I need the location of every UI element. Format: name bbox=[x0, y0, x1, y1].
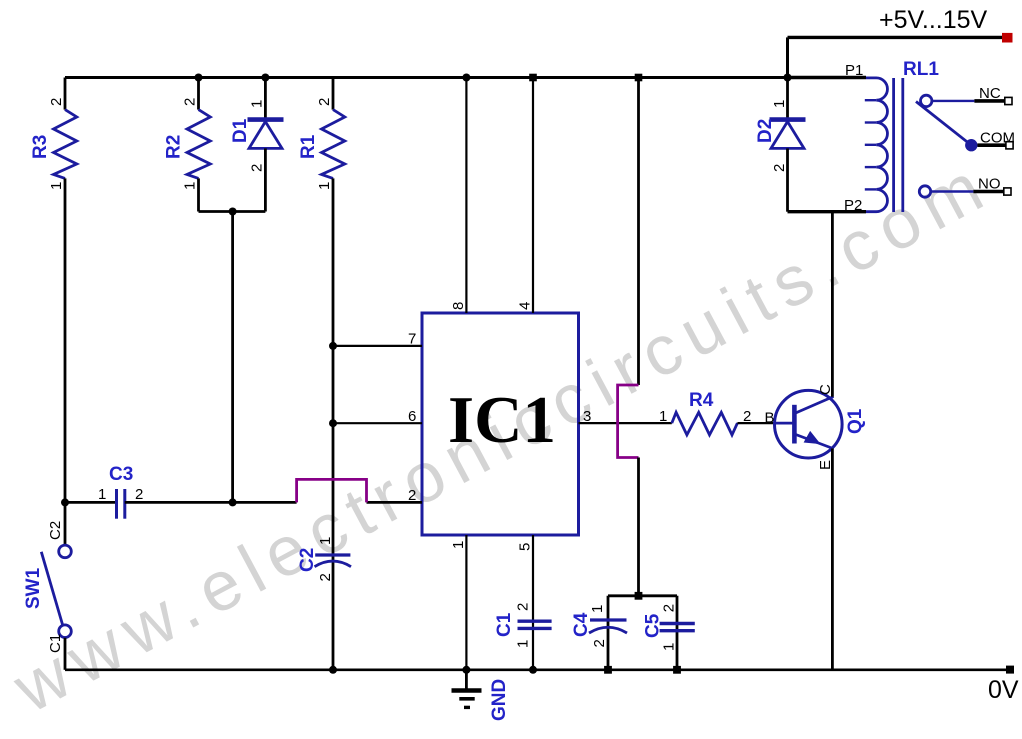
resistor R2 bbox=[164, 78, 211, 212]
svg-text:2: 2 bbox=[661, 604, 678, 612]
node dot rail pin8 bbox=[462, 74, 470, 82]
node dot rail D1 bbox=[261, 74, 269, 82]
svg-text:2: 2 bbox=[48, 98, 65, 106]
resistor R1 bbox=[298, 78, 345, 191]
capacitor C4 bbox=[571, 605, 627, 648]
svg-text:2: 2 bbox=[408, 487, 416, 504]
relay contact NC bbox=[921, 85, 1013, 107]
transistor Q1 bbox=[765, 384, 867, 470]
wire purple hop over C2 line bbox=[297, 479, 367, 502]
svg-text:1: 1 bbox=[317, 537, 334, 545]
svg-text:IC1: IC1 bbox=[448, 383, 556, 457]
diode D2 bbox=[755, 78, 806, 212]
wire top rail bbox=[65, 76, 788, 79]
wire pin 8 bbox=[465, 78, 467, 314]
wire pin 7 bbox=[333, 345, 422, 347]
svg-text:B: B bbox=[765, 410, 775, 427]
svg-text:GND: GND bbox=[489, 679, 510, 721]
node square C5 bottom bbox=[673, 666, 681, 674]
svg-text:NO: NO bbox=[978, 176, 1001, 193]
svg-text:C2: C2 bbox=[297, 548, 318, 572]
wire C4 leg bbox=[607, 596, 610, 670]
wire pin 6 bbox=[333, 422, 422, 424]
node square C4C5 bbox=[635, 592, 643, 600]
svg-text:2: 2 bbox=[591, 639, 608, 647]
wire x638 riser top bbox=[637, 78, 640, 386]
node 0V terminal bbox=[1006, 666, 1014, 674]
wire junction to C3 node bbox=[231, 212, 234, 503]
wire R1 bottom to rail (through C2) bbox=[332, 178, 335, 669]
svg-text:C2: C2 bbox=[47, 521, 64, 540]
svg-text:1: 1 bbox=[589, 605, 606, 613]
wire pin 5 bbox=[532, 535, 534, 670]
svg-text:R2: R2 bbox=[164, 135, 185, 159]
wire pin 2 stub bbox=[367, 501, 423, 504]
svg-text:4: 4 bbox=[517, 302, 534, 310]
wire pin 1 bbox=[465, 535, 467, 670]
svg-text:2: 2 bbox=[515, 603, 532, 611]
svg-text:R3: R3 bbox=[30, 135, 51, 159]
relay contact NO bbox=[919, 176, 1011, 198]
svg-text:2: 2 bbox=[249, 164, 266, 172]
wire R2/D1 bottom link bbox=[199, 210, 266, 213]
node junction R2-D1 bbox=[229, 208, 237, 216]
svg-text:2: 2 bbox=[182, 98, 199, 106]
relay contact arm bbox=[916, 102, 971, 146]
svg-text:3: 3 bbox=[583, 408, 591, 425]
wire C4-C5 top node bbox=[608, 594, 677, 597]
svg-text:1: 1 bbox=[48, 182, 65, 190]
svg-text:Q1: Q1 bbox=[845, 408, 866, 434]
ground GND symbol bbox=[452, 670, 511, 721]
svg-text:C1: C1 bbox=[47, 634, 64, 653]
wire purple hop over pin3 wire bbox=[618, 385, 639, 458]
node dot pin7 bbox=[329, 342, 337, 350]
svg-text:D2: D2 bbox=[755, 119, 776, 143]
node dot pin6 bbox=[329, 419, 337, 427]
svg-text:1: 1 bbox=[249, 100, 266, 108]
svg-text:1: 1 bbox=[98, 486, 106, 503]
svg-text:5: 5 bbox=[517, 543, 534, 551]
node dot C3 right bbox=[229, 498, 237, 506]
svg-text:C3: C3 bbox=[109, 464, 133, 485]
IC op U1 box bbox=[422, 313, 579, 535]
node dot rail R2 bbox=[195, 74, 203, 82]
capacitor C1 bbox=[494, 603, 552, 648]
resistor R3 bbox=[30, 78, 77, 503]
relay contact COM bbox=[965, 130, 1015, 152]
node square rail x638 bbox=[635, 74, 643, 82]
svg-text:1: 1 bbox=[182, 182, 199, 190]
svg-text:C1: C1 bbox=[494, 612, 515, 637]
node dot rail GND bbox=[462, 666, 470, 674]
svg-text:1: 1 bbox=[515, 640, 532, 648]
svg-text:0V: 0V bbox=[988, 676, 1019, 704]
wire pin 3 bbox=[579, 422, 672, 424]
wire Q1 collector bbox=[831, 212, 834, 397]
svg-text:1: 1 bbox=[659, 408, 667, 425]
svg-text:8: 8 bbox=[450, 302, 467, 310]
node dot rail C1 bbox=[529, 666, 537, 674]
wire +V supply bbox=[788, 36, 1005, 39]
node square rail pin4 bbox=[529, 74, 537, 82]
svg-text:2: 2 bbox=[743, 408, 751, 425]
svg-text:C4: C4 bbox=[571, 612, 592, 637]
capacitor C3 bbox=[65, 464, 233, 519]
node +V terminal bbox=[1002, 33, 1013, 43]
svg-text:P1: P1 bbox=[845, 62, 863, 79]
wire C3 to hop bbox=[233, 501, 297, 504]
svg-text:2: 2 bbox=[771, 164, 788, 172]
node dot rail C2line bbox=[329, 666, 337, 674]
svg-text:D1: D1 bbox=[230, 118, 251, 143]
relay RL1 coil bbox=[788, 59, 940, 214]
svg-text:1: 1 bbox=[450, 541, 467, 549]
capacitor C2 bbox=[297, 537, 351, 582]
svg-text:P2: P2 bbox=[844, 197, 862, 214]
svg-text:2: 2 bbox=[135, 486, 143, 503]
node dot C3 left bbox=[61, 498, 69, 506]
capacitor C5 bbox=[643, 604, 695, 651]
wire x638 riser bottom bbox=[637, 458, 640, 596]
svg-text:+5V...15V: +5V...15V bbox=[879, 6, 988, 34]
svg-text:2: 2 bbox=[316, 98, 333, 106]
wire Q1 emitter bbox=[831, 449, 834, 670]
wire bottom 0V rail bbox=[65, 668, 1007, 671]
diode D1 bbox=[230, 78, 284, 212]
svg-text:RL1: RL1 bbox=[903, 59, 939, 80]
node square C4 bottom bbox=[604, 666, 612, 674]
svg-text:1: 1 bbox=[771, 100, 788, 108]
svg-text:COM: COM bbox=[980, 130, 1015, 147]
svg-text:7: 7 bbox=[408, 331, 416, 348]
svg-text:1: 1 bbox=[316, 182, 333, 190]
switch SW1 bbox=[23, 502, 71, 669]
svg-text:R4: R4 bbox=[689, 390, 714, 411]
svg-text:NC: NC bbox=[979, 85, 1001, 102]
node dot rail +V bbox=[784, 74, 792, 82]
wire C5 leg bbox=[676, 596, 679, 670]
svg-text:1: 1 bbox=[661, 643, 678, 651]
watermark bbox=[0, 144, 1003, 728]
wire pin 4 bbox=[532, 78, 534, 314]
wire +V riser bbox=[786, 37, 789, 77]
svg-text:2: 2 bbox=[317, 573, 334, 581]
svg-text:C5: C5 bbox=[643, 613, 664, 638]
svg-text:6: 6 bbox=[408, 408, 416, 425]
svg-text:SW1: SW1 bbox=[23, 567, 44, 609]
svg-text:R1: R1 bbox=[298, 134, 319, 159]
resistor R4 bbox=[659, 390, 776, 435]
